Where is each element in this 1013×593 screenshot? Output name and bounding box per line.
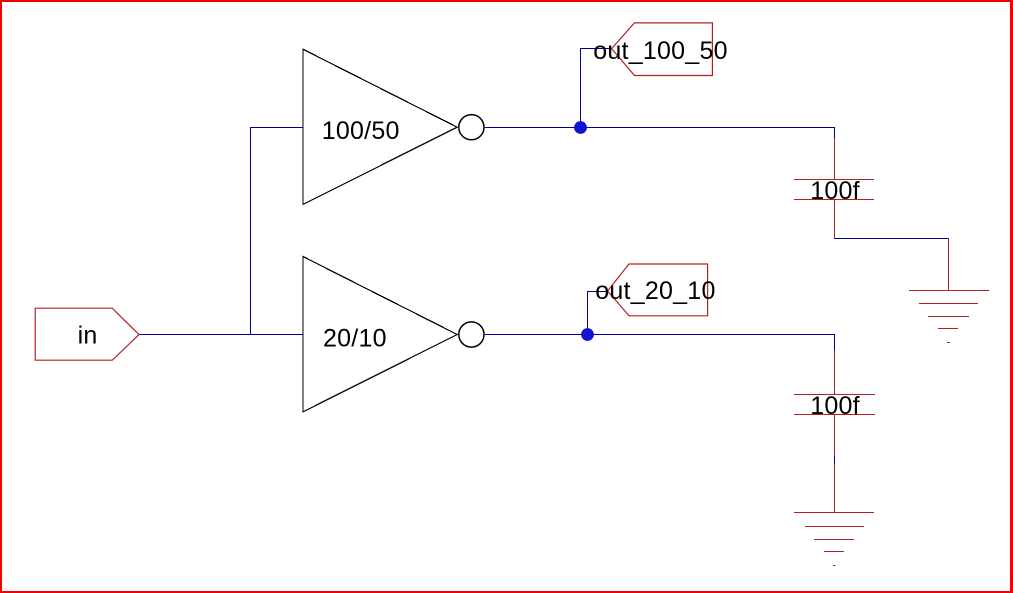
wire in horizontal (139, 334, 303, 336)
wire top label stem vertical (580, 49, 582, 128)
wire to top inverter input (250, 127, 303, 129)
wire top label stem horizontal (580, 48, 612, 50)
wire bottom label stem horizontal (587, 291, 608, 293)
wire input vertical riser (250, 128, 252, 335)
svg-text:out_20_10: out_20_10 (595, 277, 715, 305)
wire top inverter output (485, 127, 835, 129)
wire bottom cap drop (834, 335, 836, 351)
wire top cap drop (834, 128, 836, 139)
node junction dot bottom (out_20_10) (581, 328, 594, 341)
svg-text:20/10: 20/10 (323, 324, 387, 352)
net label flag out_100_50 (612, 23, 713, 76)
wire bottom label stem vertical (587, 292, 589, 335)
svg-text:in: in (78, 322, 98, 350)
capacitor C2 (100f) bottom (794, 351, 875, 513)
ground GND1 (909, 239, 989, 343)
node junction dot top (out_100_50) (574, 121, 587, 134)
wire: input net from port IN to inverters (139, 49, 949, 464)
inverter U1 output bubble (459, 115, 484, 140)
svg-text:100/50: 100/50 (322, 117, 400, 145)
wire bottom inverter output (485, 334, 835, 336)
capacitor C1 (100f) top (794, 139, 874, 239)
wire cap1 to ground horizontal (834, 238, 949, 240)
inverter U2 output bubble (459, 322, 484, 347)
wire stub in cap2 ground lead (834, 456, 836, 464)
svg-text:100f: 100f (810, 177, 860, 205)
svg-text:out_100_50: out_100_50 (593, 37, 728, 65)
inverter U1 (100/50) (303, 49, 457, 204)
inverter U2 (20/10) (303, 257, 457, 412)
port IN flag (35, 308, 139, 360)
net label flag out_20_10 (608, 264, 708, 316)
svg-text:100f: 100f (810, 392, 860, 420)
ground GND2 (794, 513, 874, 566)
